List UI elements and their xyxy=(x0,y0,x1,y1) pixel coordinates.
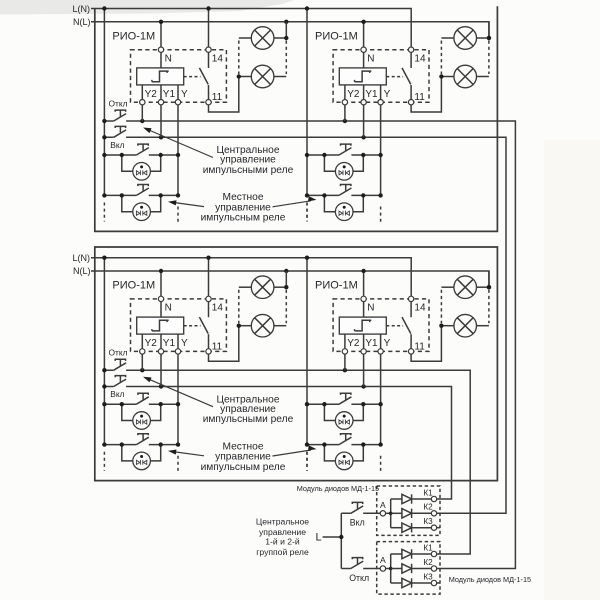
svg-text:11: 11 xyxy=(414,92,425,103)
svg-text:Y1: Y1 xyxy=(365,338,378,349)
svg-text:N: N xyxy=(367,303,374,314)
svg-text:Откл: Откл xyxy=(109,348,128,358)
svg-text:Y2: Y2 xyxy=(347,338,360,349)
svg-text:РИО-1М: РИО-1М xyxy=(315,280,358,292)
svg-text:РИО-1М: РИО-1М xyxy=(112,30,155,42)
svg-text:Y2: Y2 xyxy=(145,338,158,349)
svg-text:Y1: Y1 xyxy=(163,89,176,100)
svg-text:К2: К2 xyxy=(423,503,433,512)
svg-text:Центральное: Центральное xyxy=(256,516,309,526)
svg-text:К1: К1 xyxy=(423,543,433,552)
svg-text:группой реле: группой реле xyxy=(256,547,309,557)
svg-text:РИО-1М: РИО-1М xyxy=(112,280,155,292)
svg-text:L: L xyxy=(316,532,322,544)
svg-text:Вкл: Вкл xyxy=(110,140,124,150)
svg-text:Вкл: Вкл xyxy=(350,517,365,527)
svg-text:N: N xyxy=(165,303,172,314)
svg-text:К1: К1 xyxy=(423,488,433,497)
svg-text:РИО-1М: РИО-1М xyxy=(315,30,358,42)
svg-text:Y: Y xyxy=(181,89,188,100)
svg-text:импульсным реле: импульсным реле xyxy=(201,213,286,224)
svg-text:14: 14 xyxy=(414,54,426,65)
svg-text:импульсными реле: импульсными реле xyxy=(203,165,294,176)
svg-text:Вкл: Вкл xyxy=(110,389,124,399)
svg-text:К3: К3 xyxy=(423,572,433,581)
svg-text:Откл: Откл xyxy=(109,99,128,109)
svg-text:L(N): L(N) xyxy=(73,253,91,263)
svg-text:Модуль диодов МД-1-15: Модуль диодов МД-1-15 xyxy=(297,484,379,493)
svg-text:N(L): N(L) xyxy=(73,17,91,27)
svg-text:Откл: Откл xyxy=(349,573,369,583)
svg-text:1-й и 2-й: 1-й и 2-й xyxy=(265,536,300,546)
svg-text:К2: К2 xyxy=(423,558,433,567)
svg-text:Y: Y xyxy=(384,89,391,100)
svg-text:импульсными реле: импульсными реле xyxy=(203,414,294,425)
svg-text:управление: управление xyxy=(259,527,306,537)
svg-text:импульсным реле: импульсным реле xyxy=(201,462,286,473)
svg-text:N: N xyxy=(367,54,374,65)
svg-text:Y: Y xyxy=(181,338,188,349)
svg-text:Y1: Y1 xyxy=(163,338,176,349)
svg-text:Модуль диодов МД-1-15: Модуль диодов МД-1-15 xyxy=(449,575,531,584)
svg-text:14: 14 xyxy=(212,54,224,65)
svg-text:А: А xyxy=(380,555,386,565)
svg-text:К3: К3 xyxy=(423,517,433,526)
svg-text:L(N): L(N) xyxy=(73,4,91,14)
svg-text:Y2: Y2 xyxy=(145,89,158,100)
svg-text:N(L): N(L) xyxy=(73,266,91,276)
svg-text:А: А xyxy=(380,500,386,510)
svg-text:Y1: Y1 xyxy=(365,89,378,100)
svg-text:14: 14 xyxy=(414,303,426,314)
svg-text:Y: Y xyxy=(384,338,391,349)
svg-text:14: 14 xyxy=(212,303,224,314)
svg-text:Y2: Y2 xyxy=(347,89,360,100)
svg-text:11: 11 xyxy=(212,92,223,103)
svg-text:N: N xyxy=(165,54,172,65)
svg-text:11: 11 xyxy=(414,341,425,352)
svg-text:11: 11 xyxy=(212,341,223,352)
